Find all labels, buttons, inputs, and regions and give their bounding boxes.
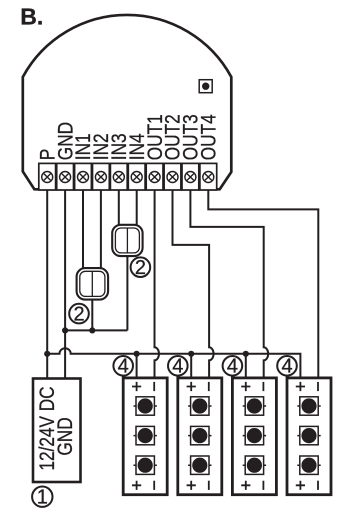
junction dot bus2/P	[44, 351, 50, 357]
terminal IN2 screw	[93, 163, 110, 190]
LED strip 2	[178, 378, 222, 495]
callout 4 strip 1	[113, 356, 133, 378]
callout 4 strip 3	[223, 356, 243, 378]
wire IN2 to switch S1	[100, 190, 102, 268]
svg-text:GND: GND	[54, 417, 77, 455]
wire OUT2 to strip 2 minus	[173, 190, 214, 378]
terminal OUT2 screw	[164, 163, 181, 190]
svg-text:OUT4: OUT4	[198, 114, 221, 160]
junction dot bus1/GND	[62, 327, 68, 333]
wire OUT3 to strip 3 minus	[190, 190, 268, 378]
module U1 outline	[23, 15, 232, 189]
callout 1 power supply	[32, 487, 52, 509]
svg-text:4: 4	[172, 356, 183, 378]
power supply PSU box	[33, 379, 81, 483]
wire OUT1 to strip 1 minus (hops over + bus)	[155, 190, 159, 378]
wire bus2 to strip 2 plus	[190, 354, 192, 378]
terminal IN3 screw	[110, 163, 127, 190]
switch common bus wire	[65, 329, 127, 331]
callout 2 switch S2	[131, 257, 151, 279]
terminal OUT1 screw	[146, 163, 163, 190]
LED strip 3	[232, 378, 276, 495]
wire IN4 to switch S2	[136, 190, 138, 225]
terminal OUT3 screw	[182, 163, 199, 190]
terminal OUT4 screw	[200, 163, 217, 190]
wire bus2 to strip 1 plus	[136, 354, 138, 378]
svg-text:2: 2	[135, 257, 146, 279]
svg-text:4: 4	[281, 356, 292, 378]
terminal P screw	[39, 163, 56, 190]
terminal IN4 screw	[128, 163, 145, 190]
LED strip 1	[123, 378, 167, 495]
junction dot bus2/strip 1	[134, 351, 140, 357]
svg-text:2: 2	[73, 304, 84, 326]
wire IN3 to switch S2	[118, 190, 120, 225]
LED strip 4	[287, 378, 331, 495]
callout 4 strip 4	[277, 356, 297, 378]
momentary switch S2 (double button)	[112, 225, 142, 256]
wire S2 common down to bus	[126, 256, 128, 330]
momentary switch S1 (double button)	[77, 268, 109, 300]
callout 2 switch S1	[69, 304, 89, 326]
svg-text:4: 4	[118, 356, 129, 378]
junction dot bus2/strip 3	[243, 351, 249, 357]
svg-text:B.: B.	[20, 4, 43, 30]
terminal GND screw	[57, 163, 74, 190]
service button indicator	[199, 80, 212, 93]
wire S1 common down to bus	[91, 300, 93, 331]
svg-text:1: 1	[37, 487, 48, 509]
wire bus2 to strip 3 plus	[245, 354, 247, 378]
+ supply bus wire (hops over GND wire)	[47, 348, 300, 378]
junction dot bus2/strip 2	[188, 351, 194, 357]
wire P to power supply +	[46, 190, 48, 379]
wire GND to power supply GND	[64, 190, 66, 379]
wire OUT4 to strip 4 minus	[208, 190, 318, 378]
junction dot bus1/S1 common	[89, 327, 95, 333]
wire IN1 to switch S1	[82, 190, 84, 268]
callout 4 strip 2	[168, 356, 188, 378]
svg-text:4: 4	[227, 356, 238, 378]
terminal IN1 screw	[75, 163, 92, 190]
